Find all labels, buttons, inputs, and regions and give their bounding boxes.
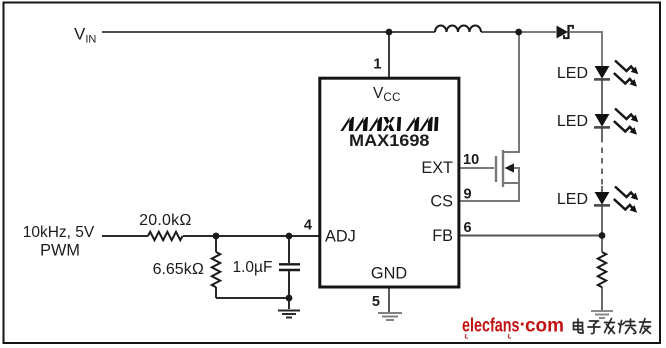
svg-text:6.65kΩ: 6.65kΩ bbox=[153, 261, 204, 278]
svg-text:4: 4 bbox=[304, 218, 312, 234]
svg-text:PWM: PWM bbox=[40, 241, 80, 259]
svg-text:10kHz, 5V: 10kHz, 5V bbox=[23, 224, 95, 241]
svg-text:GND: GND bbox=[371, 264, 407, 282]
svg-text:5: 5 bbox=[372, 294, 380, 310]
svg-text:ADJ: ADJ bbox=[325, 227, 356, 245]
svg-text:MAX1698: MAX1698 bbox=[349, 132, 430, 150]
svg-text:20.0kΩ: 20.0kΩ bbox=[139, 212, 192, 229]
svg-text:10: 10 bbox=[463, 152, 479, 168]
svg-text:elecfans: elecfans bbox=[462, 315, 520, 337]
svg-text:1.0µF: 1.0µF bbox=[233, 259, 273, 276]
svg-text:com: com bbox=[525, 315, 564, 337]
svg-text:1: 1 bbox=[373, 57, 381, 73]
svg-text:CS: CS bbox=[430, 192, 453, 210]
svg-text:6: 6 bbox=[464, 220, 472, 236]
svg-text:EXT: EXT bbox=[421, 159, 453, 177]
svg-text:9: 9 bbox=[464, 187, 472, 203]
svg-text:FB: FB bbox=[432, 227, 453, 245]
